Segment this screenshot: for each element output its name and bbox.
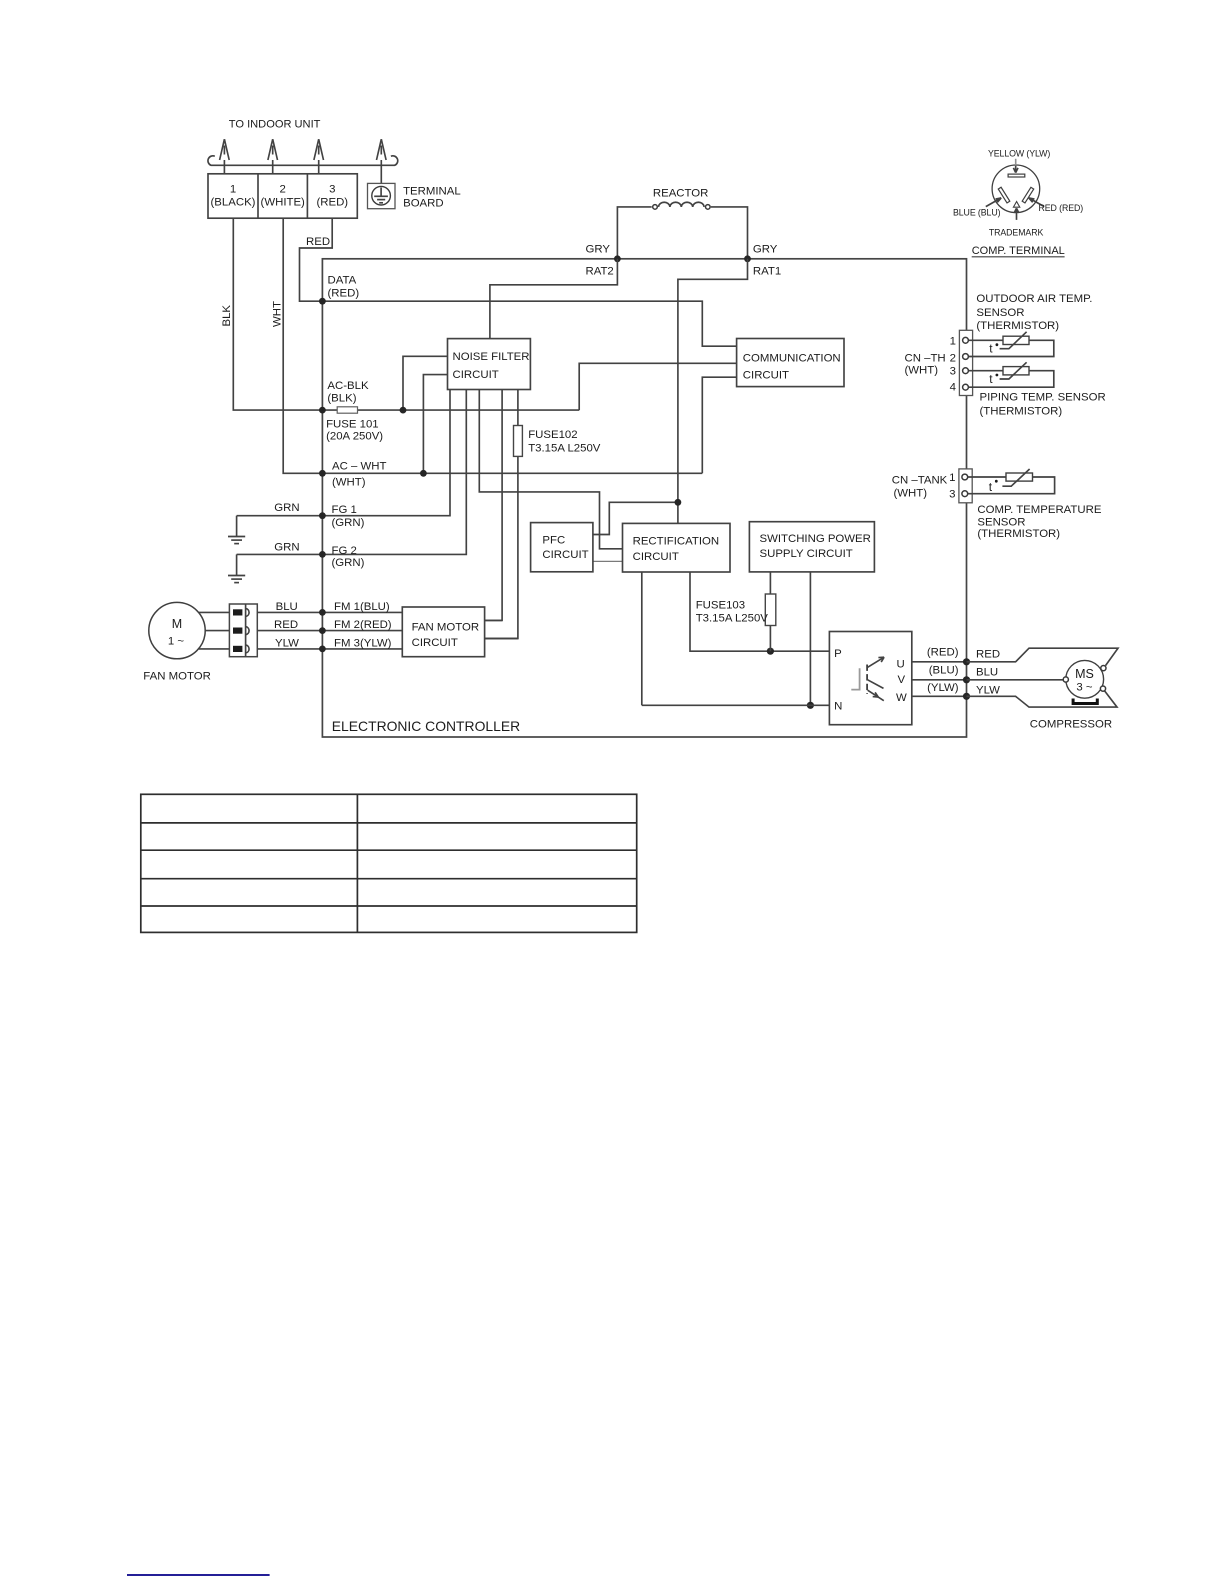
svg-text:(GRN): (GRN) (332, 557, 365, 569)
svg-text:W: W (896, 692, 907, 704)
wire RAT2 to noise filter (490, 259, 618, 339)
svg-text:CIRCUIT: CIRCUIT (412, 637, 458, 649)
svg-text:T3.15A L250V: T3.15A L250V (696, 612, 769, 624)
parts table (141, 794, 637, 932)
svg-text:WHT: WHT (272, 301, 284, 327)
svg-text:TRADEMARK: TRADEMARK (989, 228, 1044, 238)
thermistor outdoor air temp loop (968, 340, 1054, 356)
svg-text:DATA: DATA (328, 275, 357, 287)
svg-text:(GRN): (GRN) (332, 517, 365, 529)
node N junction (807, 702, 814, 709)
wire RED to compressor (967, 648, 1119, 665)
svg-text:GRN: GRN (274, 542, 299, 554)
fuse FUSE101 (337, 407, 357, 413)
wire WHT (terminal 2 to AC-WHT) (283, 218, 321, 473)
reactor coil (659, 202, 705, 207)
svg-text:(THERMISTOR): (THERMISTOR) (980, 405, 1063, 417)
reactor loop wires (617, 207, 651, 259)
svg-text:1: 1 (230, 183, 236, 195)
wire communication pin3 to AC-WHT (702, 377, 736, 473)
svg-text:FG 1: FG 1 (332, 504, 357, 516)
wire RAT1 to rectification (678, 259, 748, 524)
node FM1 (319, 609, 326, 616)
svg-text:4: 4 (950, 381, 956, 393)
blue slot (998, 187, 1010, 203)
footnote rule (blue) (127, 1574, 270, 1576)
svg-text:(BLACK): (BLACK) (211, 197, 256, 209)
node AC-WHT (319, 470, 326, 477)
svg-text:FUSE102: FUSE102 (528, 429, 577, 441)
red pin arrow (1029, 198, 1044, 207)
ground FG1 (228, 516, 245, 544)
svg-text:(BLU): (BLU) (929, 665, 959, 677)
svg-text:T3.15A L250V: T3.15A L250V (528, 442, 601, 454)
thermistor outdoor air temp element (1003, 336, 1029, 344)
svg-text:TERMINAL: TERMINAL (403, 185, 461, 197)
svg-text:1: 1 (950, 335, 956, 347)
inverter power module box (829, 632, 911, 725)
pins CN-TH 1-4 (963, 337, 969, 343)
fan motor M 1~ (149, 602, 205, 658)
svg-text:PFC: PFC (542, 535, 565, 547)
thermistor piping temp element (1003, 367, 1029, 375)
trademark arrow (1014, 208, 1019, 220)
wire YLW to compressor (967, 691, 1118, 707)
cable bracket line (208, 156, 398, 165)
fuse FUSE103 (765, 594, 776, 626)
wire noise filter pin6 to fan motor circuit (485, 390, 503, 621)
svg-text:AC – WHT: AC – WHT (332, 461, 386, 473)
comp terminal symbol (953, 149, 1083, 257)
svg-text:TO INDOOR UNIT: TO INDOOR UNIT (229, 119, 321, 131)
node AC-BLK junction (400, 407, 407, 414)
wire BLU to compressor (967, 679, 1064, 681)
node P junction below FUSE103 (767, 648, 774, 655)
wire rectification to N line (641, 572, 643, 705)
wire SPS through FUSE103 (769, 572, 771, 651)
svg-text:BLU: BLU (976, 666, 998, 678)
svg-text:FM 2(RED): FM 2(RED) (334, 619, 392, 631)
wire noise filter pin1 to AC-BLK node (403, 356, 448, 410)
wire W output (912, 695, 967, 697)
terminal block 1-2-3 (208, 174, 357, 218)
node V (963, 676, 970, 683)
comp terminal circle (992, 165, 1040, 213)
svg-text:1: 1 (949, 472, 955, 484)
node RAT1 (744, 255, 751, 262)
svg-text:RAT2: RAT2 (586, 266, 614, 278)
svg-text:AC-BLK: AC-BLK (327, 380, 369, 392)
wire DATA line (322, 301, 736, 346)
svg-text:RED: RED (306, 236, 330, 248)
trademark triangle (1013, 202, 1019, 208)
wire fan motor leads (199, 612, 230, 649)
svg-text:(RED): (RED) (328, 288, 360, 300)
wire FM2 (257, 630, 402, 632)
communication circuit box U-COMM (737, 339, 844, 387)
wire BLK (terminal 1 to AC-BLK) (233, 218, 320, 410)
wire PFC to rectification (lower) (593, 560, 623, 562)
fuse FUSE102 (514, 426, 523, 457)
svg-text:CIRCUIT: CIRCUIT (743, 370, 789, 382)
svg-text:(RED): (RED) (927, 647, 959, 659)
svg-text:BLU: BLU (276, 601, 298, 613)
wire fan motor circuit output 1 (485, 619, 503, 621)
svg-text:COMMUNICATION: COMMUNICATION (743, 353, 841, 365)
svg-text:N: N (834, 701, 842, 713)
svg-text:3: 3 (949, 488, 955, 500)
wire AC-BLK (322, 409, 579, 411)
svg-text:FUSE 101: FUSE 101 (326, 418, 379, 430)
node DATA (319, 298, 326, 305)
svg-text:SWITCHING POWER: SWITCHING POWER (760, 533, 871, 545)
svg-text:SENSOR: SENSOR (976, 307, 1024, 319)
electronic controller box (322, 259, 966, 737)
svg-text:BLUE (BLU): BLUE (BLU) (953, 207, 1001, 217)
wire SPS to N line (809, 572, 811, 705)
svg-text:COMPRESSOR: COMPRESSOR (1030, 719, 1112, 731)
svg-text:M: M (172, 617, 182, 631)
wire PFC to rectification node (593, 502, 678, 534)
svg-text:COMP. TEMPERATURE: COMP. TEMPERATURE (977, 504, 1101, 516)
svg-text:CIRCUIT: CIRCUIT (453, 369, 499, 381)
svg-text:RAT1: RAT1 (753, 266, 781, 278)
wire AC-BLK riser to communication pin2 (579, 363, 736, 410)
wire rectification to P line (690, 572, 829, 651)
connector CN-TANK (WHT) (959, 469, 972, 503)
svg-text:(THERMISTOR): (THERMISTOR) (976, 320, 1059, 332)
wire FG1 (237, 390, 450, 516)
svg-text:2: 2 (950, 353, 956, 365)
yellow pin arrow (1015, 159, 1017, 165)
node AC-BLK (319, 407, 326, 414)
svg-text:FM 1(BLU): FM 1(BLU) (334, 601, 390, 613)
svg-text:(20A 250V): (20A 250V) (326, 430, 383, 442)
svg-text:3 ~: 3 ~ (1076, 681, 1092, 693)
svg-text:(BLK): (BLK) (327, 392, 356, 404)
svg-text:RED: RED (274, 619, 298, 631)
svg-text:(YLW): (YLW) (927, 682, 959, 694)
thermistor comp temperature loop (968, 477, 1055, 494)
svg-text:CN –TH: CN –TH (905, 352, 946, 364)
svg-text:1 ~: 1 ~ (168, 636, 184, 648)
svg-text:PIPING TEMP. SENSOR: PIPING TEMP. SENSOR (980, 392, 1106, 404)
thermistor piping temp loop (968, 371, 1054, 388)
node U (963, 658, 970, 665)
node RAT2 (614, 255, 621, 262)
wire V output (912, 679, 967, 681)
svg-text:BOARD: BOARD (403, 197, 444, 209)
svg-text:FAN MOTOR: FAN MOTOR (412, 621, 480, 633)
svg-text:CIRCUIT: CIRCUIT (542, 549, 588, 561)
node FG2 (319, 551, 326, 558)
wire RED (terminal 3 to DATA) (300, 218, 333, 301)
node AC-WHT junction (420, 470, 427, 477)
thermistor comp temperature element (1006, 473, 1033, 481)
svg-text:MS: MS (1075, 667, 1094, 681)
terminal board earth symbol (368, 183, 396, 208)
svg-text:U: U (897, 659, 905, 671)
svg-text:3: 3 (950, 366, 956, 378)
svg-text:RED (RED): RED (RED) (1039, 203, 1084, 213)
svg-text:NOISE FILTER: NOISE FILTER (453, 351, 530, 363)
wire fan motor circuit output 2 (485, 638, 518, 640)
svg-text:(WHT): (WHT) (894, 488, 928, 500)
svg-text:FG 2: FG 2 (332, 545, 357, 557)
svg-text:COMP. TERMINAL: COMP. TERMINAL (972, 245, 1065, 257)
compressor motor MS 3~ (1066, 660, 1104, 698)
node W (963, 693, 970, 700)
wire noise filter pin2 to AC-WHT (423, 375, 447, 474)
node FM2 (319, 627, 326, 634)
noise filter circuit box U-NF (448, 339, 531, 390)
transistor symbol (inverter IGBT) (851, 657, 884, 701)
wire FM1 (257, 611, 402, 613)
svg-text:BLK: BLK (221, 305, 233, 327)
svg-text:(RED): (RED) (316, 197, 348, 209)
svg-text:GRY: GRY (586, 244, 611, 256)
svg-text:(WHITE): (WHITE) (261, 197, 305, 209)
arrow 4 (to terminal board earth) (377, 139, 387, 183)
pfc circuit box U-PFC (531, 523, 593, 572)
svg-text:(WHT): (WHT) (332, 476, 366, 488)
svg-text:GRN: GRN (274, 502, 299, 514)
svg-text:V: V (898, 674, 906, 686)
svg-text:SUPPLY CIRCUIT: SUPPLY CIRCUIT (760, 548, 853, 560)
svg-text:SENSOR: SENSOR (977, 516, 1025, 528)
connector CN-TH (WHT) (959, 330, 972, 395)
wire FG2 (237, 390, 467, 555)
svg-text:CIRCUIT: CIRCUIT (633, 551, 679, 563)
svg-text:3: 3 (329, 183, 335, 195)
wire noise filter pin5 to rectification (479, 390, 622, 549)
node FG1 (319, 512, 326, 519)
svg-text:FM 3(YLW): FM 3(YLW) (334, 637, 392, 649)
svg-text:(WHT): (WHT) (905, 365, 939, 377)
fan motor connector (229, 604, 257, 657)
svg-text:FAN MOTOR: FAN MOTOR (143, 671, 211, 683)
svg-text:(THERMISTOR): (THERMISTOR) (977, 528, 1060, 540)
yellow slot (1008, 174, 1025, 177)
blue pin arrow (986, 198, 1001, 207)
node FM3 (319, 646, 326, 653)
red slot (1022, 187, 1034, 203)
node PFC/RAT1/rectification junction (675, 499, 682, 506)
svg-text:P: P (834, 648, 842, 660)
svg-text:RECTIFICATION: RECTIFICATION (633, 535, 719, 547)
svg-text:GRY: GRY (753, 244, 778, 256)
wire noise filter pin7 through FUSE102 to fan motor circuit (485, 390, 518, 639)
arrow 1 (to indoor unit) (220, 139, 230, 174)
fan motor circuit box U-FMC (402, 607, 484, 657)
svg-text:REACTOR: REACTOR (653, 188, 709, 200)
wire FM3 (257, 648, 402, 650)
switching power supply circuit box U-SPS (749, 522, 874, 572)
svg-text:ELECTRONIC CONTROLLER: ELECTRONIC CONTROLLER (332, 718, 520, 734)
svg-text:YELLOW (YLW): YELLOW (YLW) (988, 149, 1050, 159)
svg-text:YLW: YLW (976, 685, 1000, 697)
arrow 2 (to indoor unit) (268, 139, 278, 174)
arrow 3 (to indoor unit) (314, 139, 324, 174)
svg-text:YLW: YLW (275, 637, 299, 649)
svg-text:FUSE103: FUSE103 (696, 600, 745, 612)
ground FG2 (228, 554, 245, 582)
svg-text:OUTDOOR AIR TEMP.: OUTDOOR AIR TEMP. (976, 293, 1092, 305)
wire AC-WHT (322, 472, 702, 474)
svg-text:CN –TANK: CN –TANK (892, 475, 948, 487)
rectification circuit box U-RECT (623, 523, 731, 572)
pins CN-TANK 1,3 (962, 474, 968, 480)
wire N line (642, 704, 830, 706)
svg-text:RED: RED (976, 648, 1000, 660)
wire U output (912, 661, 967, 663)
svg-text:2: 2 (280, 183, 286, 195)
compressor crankcase heater bracket (1073, 699, 1097, 704)
